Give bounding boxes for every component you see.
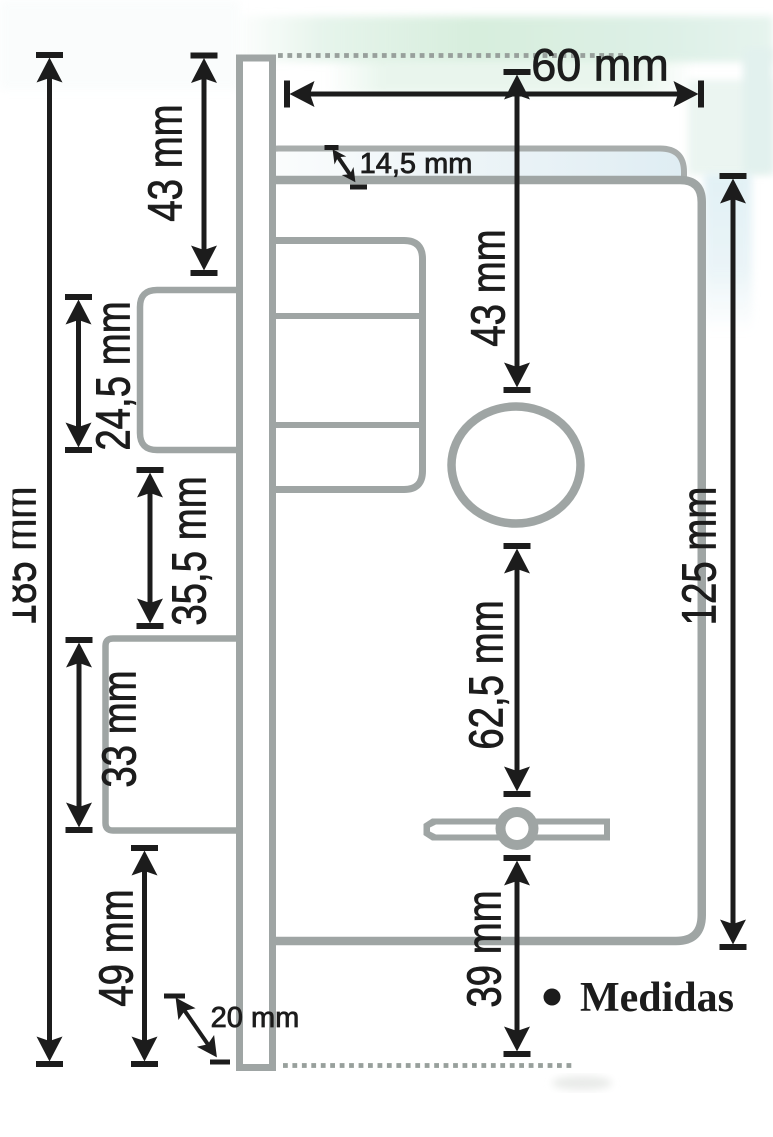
bullet for Medidas bbox=[544, 989, 561, 1006]
dimension arrow 62,5 mm spindle to key bbox=[504, 543, 531, 797]
dimension arrow 125 mm body height bbox=[720, 173, 747, 950]
latch box divider line 1 bbox=[258, 313, 419, 319]
deadbolt tab left of faceplate bbox=[106, 639, 251, 831]
background tint: mint band lower fade bbox=[325, 58, 695, 94]
lock back cover plate (light cyan, rounded top-right corner) bbox=[255, 149, 684, 401]
svg-text:24,5 mm: 24,5 mm bbox=[87, 301, 140, 450]
latch mechanism box inside body bbox=[255, 241, 423, 490]
svg-text:43 mm: 43 mm bbox=[462, 229, 515, 346]
svg-text:60 mm: 60 mm bbox=[531, 40, 669, 91]
svg-text:43 mm: 43 mm bbox=[139, 104, 192, 221]
key cylinder wings: outer blade bbox=[424, 819, 611, 841]
background tint: cyan patch right of lock body bbox=[704, 174, 752, 334]
svg-text:39 mm: 39 mm bbox=[458, 890, 511, 1007]
background tint: top mint band bbox=[230, 16, 773, 62]
svg-text:20 mm: 20 mm bbox=[211, 1002, 300, 1034]
dimension arrow 49 mm bottom left bbox=[131, 845, 158, 1067]
background tint: faint top-left wash bbox=[0, 0, 240, 90]
svg-text:49 mm: 49 mm bbox=[90, 889, 143, 1006]
svg-text:62,5 mm: 62,5 mm bbox=[460, 600, 513, 749]
lock body (big rounded rectangle) bbox=[255, 180, 702, 941]
faint streak bottom right bbox=[552, 1076, 612, 1090]
dimension arrow 39 mm key to bottom bbox=[504, 855, 531, 1057]
dimension arrow 14,5 mm faceplate offset bbox=[325, 145, 368, 190]
dimension arrow 185 mm overall bbox=[36, 52, 63, 1067]
svg-text:33 mm: 33 mm bbox=[93, 670, 146, 787]
dimension arrow 33 mm deadbolt tab bbox=[66, 637, 93, 833]
svg-text:35,5 mm: 35,5 mm bbox=[163, 476, 216, 625]
key cylinder wings: inner white slot bbox=[430, 825, 604, 835]
latch bolt tab left of faceplate bbox=[140, 290, 250, 450]
dotted line top door edge bbox=[278, 53, 623, 58]
edge clip of 185 mm label bbox=[0, 470, 13, 640]
latch box divider line 2 bbox=[258, 422, 419, 428]
dimension arrow 35,5 mm gap bbox=[137, 467, 164, 629]
svg-text:Medidas: Medidas bbox=[580, 975, 734, 1021]
key cylinder ring hole bbox=[506, 817, 529, 840]
dimension arrow 43 mm to spindle bbox=[504, 69, 531, 393]
dimension arrow 60 mm width bbox=[284, 81, 704, 108]
key cylinder ring bbox=[496, 807, 539, 850]
background tint: top right pale block bbox=[688, 80, 773, 175]
svg-text:14,5 mm: 14,5 mm bbox=[360, 148, 473, 180]
faceplate (tall thin front plate) bbox=[240, 58, 273, 1068]
dimension arrow 24,5 mm latch tab bbox=[65, 294, 92, 453]
dotted line bottom door edge bbox=[283, 1063, 571, 1068]
dimension arrow 20 mm faceplate depth bbox=[164, 994, 230, 1065]
dimension arrow 43 mm top left bbox=[191, 53, 218, 277]
svg-text:125 mm: 125 mm bbox=[673, 487, 726, 626]
spindle hole circle bbox=[452, 407, 581, 524]
background tint: right edge strip bbox=[743, 48, 773, 173]
